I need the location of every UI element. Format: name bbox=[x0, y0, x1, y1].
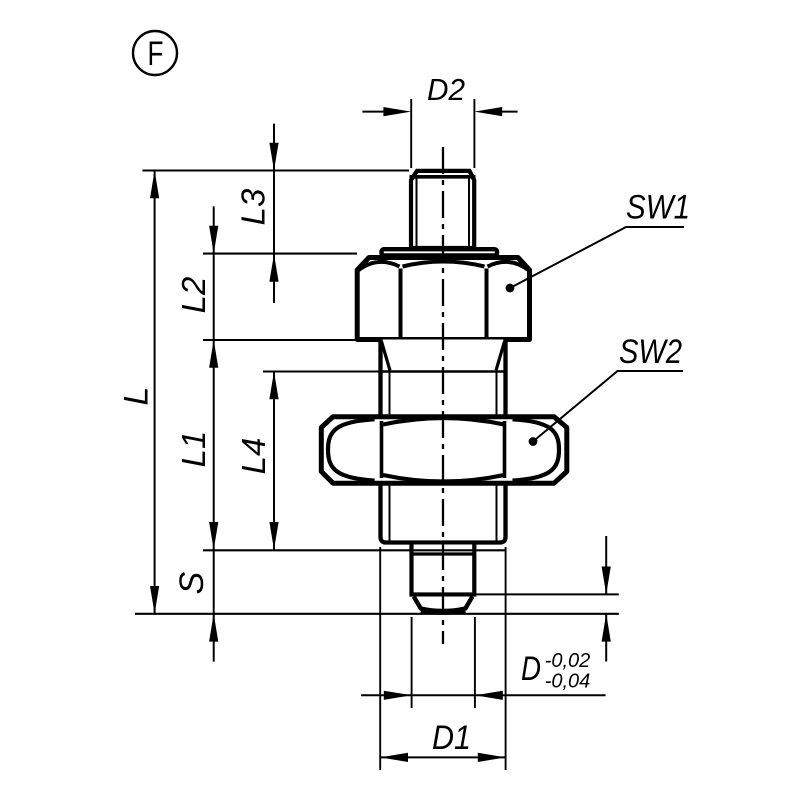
dimension L3 bbox=[235, 124, 381, 372]
svg-text:SW1: SW1 bbox=[626, 189, 690, 227]
locating pin bbox=[412, 545, 475, 613]
dimension D with tolerance bbox=[361, 650, 606, 700]
svg-text:S: S bbox=[173, 571, 211, 594]
svg-text:-0,02: -0,02 bbox=[545, 650, 591, 672]
svg-text:SW2: SW2 bbox=[619, 333, 682, 371]
leader SW1 bbox=[506, 189, 690, 293]
hex nut SW1 bbox=[357, 258, 529, 340]
svg-text:L3: L3 bbox=[235, 188, 272, 225]
dimension L1 bbox=[175, 340, 379, 550]
leader SW2 bbox=[529, 333, 683, 446]
pin tip dimension right bbox=[412, 536, 619, 662]
threaded stud D2 bbox=[410, 171, 476, 248]
svg-text:L1: L1 bbox=[175, 431, 212, 468]
svg-text:-0,04: -0,04 bbox=[545, 671, 591, 693]
svg-text:F: F bbox=[148, 35, 164, 73]
svg-text:D1: D1 bbox=[432, 719, 471, 757]
centerline bbox=[442, 147, 444, 644]
dimension S bbox=[135, 550, 619, 641]
svg-text:L2: L2 bbox=[175, 277, 212, 314]
svg-text:L4: L4 bbox=[235, 438, 272, 475]
dimension D2 top bbox=[362, 72, 517, 168]
dimension L2 bbox=[175, 206, 357, 661]
svg-text:L: L bbox=[118, 387, 156, 406]
dimension D1 bbox=[380, 719, 505, 762]
view marker F circle bbox=[133, 31, 177, 75]
svg-text:D: D bbox=[521, 650, 541, 688]
svg-text:D2: D2 bbox=[427, 72, 465, 107]
dimension L left bbox=[118, 171, 410, 614]
hex lock nut SW2 bbox=[321, 417, 567, 484]
washer under stud bbox=[382, 249, 498, 255]
extension lines bottom bbox=[380, 547, 505, 770]
dimension L4 bbox=[235, 372, 279, 550]
threaded body bbox=[381, 340, 506, 543]
